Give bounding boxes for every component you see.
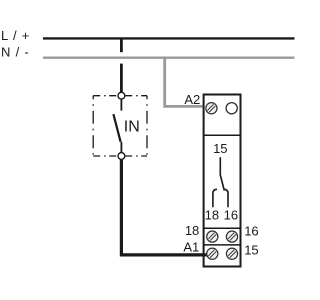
switch IN blade xyxy=(113,114,120,142)
contact blade from 15 xyxy=(220,157,224,190)
IN dashed enclosure bottom edge xyxy=(93,155,147,157)
divider between terminal rows xyxy=(204,244,241,246)
svg-text:15: 15 xyxy=(213,141,227,156)
IN dashed enclosure right edge xyxy=(146,96,148,156)
svg-text:15: 15 xyxy=(244,242,258,257)
contact hook 18 xyxy=(213,189,217,207)
wire stub into A1 terminal xyxy=(202,253,207,256)
terminal circle top of IN xyxy=(118,92,125,99)
terminal screw A1 xyxy=(207,248,218,259)
divider below A2 terminals xyxy=(204,134,241,136)
wire N/- branch to A2 xyxy=(165,58,207,107)
switch IN upper stub xyxy=(120,99,122,110)
terminal circle top right xyxy=(226,103,237,114)
svg-text:16: 16 xyxy=(244,224,258,239)
terminal circle bottom of IN xyxy=(118,153,125,160)
svg-text:A1: A1 xyxy=(183,240,199,255)
IN dashed enclosure top edge xyxy=(93,95,147,97)
relay module body xyxy=(204,95,241,267)
terminal screw A2 xyxy=(206,103,217,114)
wire from IN to A1 xyxy=(121,159,206,255)
svg-text:N / -: N / - xyxy=(1,45,30,60)
svg-text:IN: IN xyxy=(124,118,140,135)
terminal screw 16 xyxy=(226,231,237,242)
svg-text:L / +: L / + xyxy=(1,28,30,43)
divider above 18/16 terminals xyxy=(204,227,241,229)
terminal screw 15 xyxy=(226,248,237,259)
switch IN lower stub xyxy=(120,142,122,153)
wire N/- bus xyxy=(43,57,295,59)
svg-text:A2: A2 xyxy=(184,92,200,107)
terminal screw 18 xyxy=(207,231,218,242)
svg-text:18: 18 xyxy=(205,207,219,222)
wire from L/+ down to IN (below N/- crossing) xyxy=(120,64,123,93)
wire from L/+ down to IN (upper segment) xyxy=(120,38,123,52)
svg-text:16: 16 xyxy=(224,207,238,222)
contact hook 16 xyxy=(224,189,228,207)
wire L/+ bus xyxy=(43,37,295,39)
svg-text:18: 18 xyxy=(185,223,199,238)
IN dashed enclosure left edge xyxy=(92,96,94,156)
